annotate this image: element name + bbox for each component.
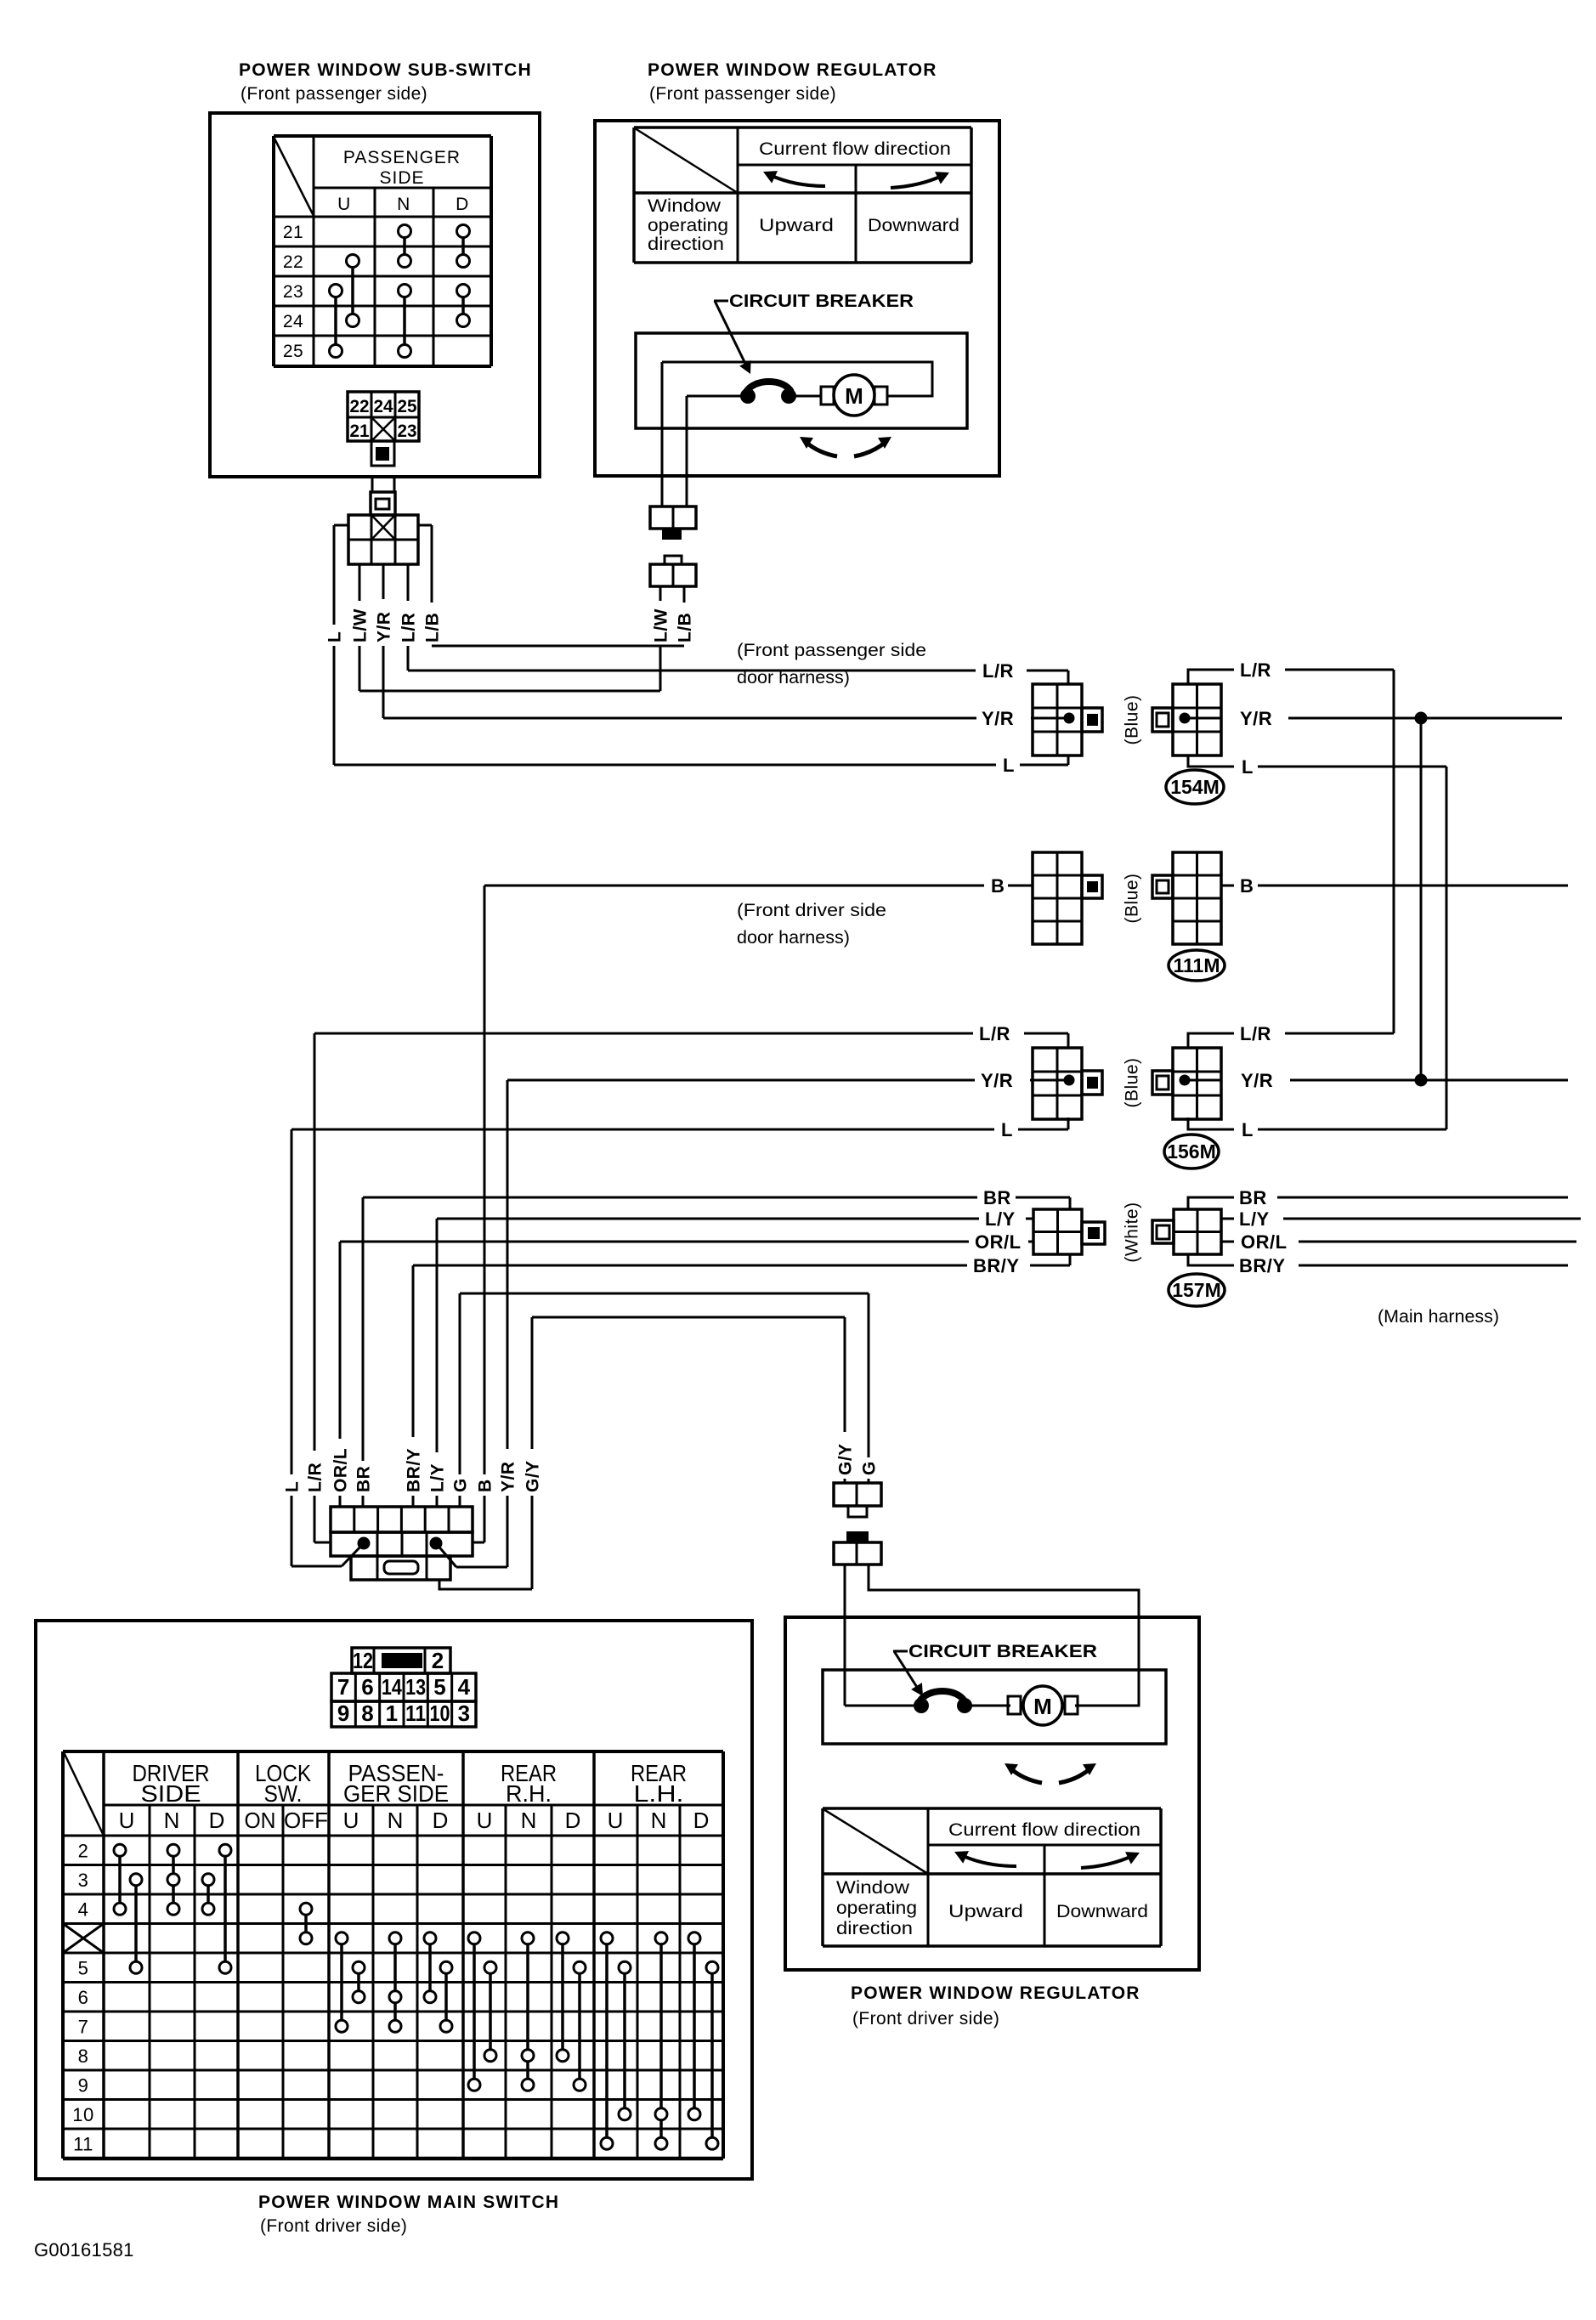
svg-text:R.H.: R.H. — [506, 1780, 552, 1807]
svg-text:21: 21 — [283, 223, 303, 242]
svg-text:5: 5 — [78, 1957, 89, 1978]
svg-text:Window: Window — [836, 1878, 910, 1898]
svg-text:5: 5 — [433, 1674, 445, 1700]
svg-text:CIRCUIT BREAKER: CIRCUIT BREAKER — [729, 291, 914, 311]
svg-text:22: 22 — [283, 252, 303, 272]
svg-text:OR/L: OR/L — [331, 1448, 351, 1492]
svg-text:L/R: L/R — [306, 1463, 325, 1492]
svg-text:N: N — [651, 1808, 667, 1833]
svg-text:24: 24 — [283, 312, 303, 331]
svg-text:1: 1 — [386, 1700, 398, 1726]
svg-text:BR/Y: BR/Y — [973, 1255, 1020, 1276]
svg-text:L/B: L/B — [676, 613, 695, 642]
svg-text:(White): (White) — [1123, 1202, 1142, 1262]
svg-text:L/R: L/R — [399, 613, 419, 642]
svg-text:Current flow direction: Current flow direction — [759, 139, 951, 159]
svg-text:U: U — [343, 1808, 359, 1833]
svg-text:3: 3 — [458, 1700, 470, 1726]
svg-text:B: B — [1240, 875, 1254, 897]
svg-text:BR: BR — [1239, 1187, 1267, 1208]
svg-text:L/R: L/R — [979, 1023, 1010, 1044]
svg-text:G00161581: G00161581 — [34, 2239, 134, 2261]
svg-text:BR/Y: BR/Y — [1239, 1255, 1286, 1276]
svg-text:(Blue): (Blue) — [1123, 694, 1142, 744]
svg-text:OFF: OFF — [284, 1808, 328, 1833]
svg-text:PASSENGER: PASSENGER — [343, 148, 461, 167]
svg-text:L: L — [325, 631, 345, 642]
svg-text:111M: 111M — [1174, 954, 1220, 976]
svg-text:BR: BR — [354, 1466, 374, 1492]
svg-text:POWER WINDOW SUB-SWITCH: POWER WINDOW SUB-SWITCH — [239, 60, 532, 80]
svg-text:25: 25 — [398, 397, 417, 416]
svg-text:operating: operating — [648, 216, 728, 235]
svg-text:U: U — [477, 1808, 493, 1833]
svg-text:Downward: Downward — [868, 216, 959, 235]
svg-text:4: 4 — [458, 1674, 471, 1700]
svg-text:SIDE: SIDE — [379, 168, 424, 188]
svg-text:7: 7 — [78, 2016, 89, 2037]
svg-text:L: L — [1001, 1119, 1013, 1140]
svg-text:157M: 157M — [1172, 1279, 1221, 1301]
svg-text:L/W: L/W — [652, 608, 671, 642]
svg-text:direction: direction — [648, 235, 724, 254]
svg-text:L: L — [1242, 756, 1254, 778]
svg-text:D: D — [565, 1808, 581, 1833]
svg-text:(Main harness): (Main harness) — [1378, 1307, 1499, 1327]
svg-text:L/Y: L/Y — [1239, 1208, 1270, 1230]
svg-text:(Front driver side: (Front driver side — [737, 901, 886, 920]
svg-text:Window: Window — [648, 196, 722, 216]
svg-text:L/B: L/B — [423, 613, 443, 642]
svg-text:N: N — [397, 195, 410, 214]
svg-text:N: N — [164, 1808, 180, 1833]
svg-text:(Front passenger side: (Front passenger side — [737, 641, 926, 660]
svg-text:Y/R: Y/R — [982, 708, 1014, 729]
svg-text:OR/L: OR/L — [975, 1231, 1022, 1253]
svg-text:6: 6 — [78, 1987, 89, 2008]
svg-text:G: G — [451, 1478, 471, 1492]
svg-text:U: U — [337, 195, 351, 214]
svg-text:21: 21 — [350, 422, 370, 441]
svg-text:(Front driver side): (Front driver side) — [852, 2009, 999, 2029]
svg-text:L/W: L/W — [351, 608, 371, 642]
svg-text:N: N — [388, 1808, 404, 1833]
svg-text:(Front driver side): (Front driver side) — [260, 2216, 407, 2236]
svg-text:Y/R: Y/R — [1241, 1070, 1273, 1091]
svg-text:B: B — [991, 875, 1005, 897]
svg-text:G/Y: G/Y — [836, 1443, 856, 1475]
svg-text:BR/Y: BR/Y — [405, 1448, 424, 1492]
svg-text:154M: 154M — [1170, 776, 1220, 798]
svg-text:23: 23 — [283, 282, 303, 302]
svg-text:L/R: L/R — [1240, 1023, 1271, 1044]
svg-text:9: 9 — [78, 2074, 89, 2096]
svg-text:25: 25 — [283, 342, 303, 361]
svg-text:4: 4 — [78, 1898, 89, 1920]
svg-text:L/Y: L/Y — [428, 1463, 448, 1492]
svg-text:L: L — [283, 1481, 303, 1492]
svg-text:Upward: Upward — [948, 1902, 1023, 1921]
svg-text:8: 8 — [78, 2046, 89, 2067]
svg-text:L: L — [1003, 755, 1015, 776]
svg-text:U: U — [119, 1808, 135, 1833]
svg-text:6: 6 — [361, 1674, 373, 1700]
svg-text:CIRCUIT BREAKER: CIRCUIT BREAKER — [908, 1642, 1097, 1661]
svg-text:3: 3 — [78, 1870, 89, 1891]
svg-text:operating: operating — [836, 1898, 917, 1918]
svg-text:POWER WINDOW REGULATOR: POWER WINDOW REGULATOR — [851, 1983, 1140, 2003]
svg-text:Downward: Downward — [1056, 1902, 1148, 1921]
svg-text:D: D — [433, 1808, 449, 1833]
svg-text:L/Y: L/Y — [985, 1208, 1016, 1230]
svg-text:9: 9 — [337, 1700, 349, 1726]
svg-text:L/R: L/R — [1240, 659, 1271, 681]
svg-text:U: U — [608, 1808, 624, 1833]
svg-text:GER SIDE: GER SIDE — [343, 1780, 449, 1807]
svg-text:D: D — [209, 1808, 225, 1833]
svg-text:L: L — [1242, 1119, 1254, 1140]
svg-text:SW.: SW. — [264, 1780, 303, 1807]
svg-text:22: 22 — [350, 397, 370, 416]
svg-text:Y/R: Y/R — [1240, 708, 1272, 729]
svg-text:G/Y: G/Y — [524, 1460, 543, 1492]
svg-text:OR/L: OR/L — [1241, 1231, 1288, 1253]
svg-text:SIDE: SIDE — [141, 1780, 201, 1807]
svg-text:L.H.: L.H. — [634, 1780, 684, 1807]
svg-text:direction: direction — [836, 1919, 913, 1938]
svg-text:11: 11 — [73, 2133, 93, 2154]
svg-text:23: 23 — [398, 422, 417, 441]
svg-text:M: M — [845, 383, 863, 409]
svg-text:8: 8 — [361, 1700, 373, 1726]
svg-text:(Blue): (Blue) — [1123, 873, 1142, 923]
svg-text:11: 11 — [405, 1700, 426, 1726]
svg-text:L/R: L/R — [982, 660, 1014, 682]
svg-text:7: 7 — [337, 1674, 349, 1700]
svg-text:Y/R: Y/R — [375, 611, 394, 642]
svg-text:(Front passenger side): (Front passenger side) — [241, 84, 427, 104]
svg-text:2: 2 — [78, 1840, 89, 1861]
svg-text:POWER WINDOW MAIN SWITCH: POWER WINDOW MAIN SWITCH — [258, 2193, 559, 2212]
svg-text:12: 12 — [353, 1648, 373, 1673]
svg-text:10: 10 — [72, 2104, 93, 2125]
svg-text:14: 14 — [382, 1674, 402, 1700]
svg-text:ON: ON — [245, 1808, 276, 1833]
svg-text:Y/R: Y/R — [499, 1461, 518, 1492]
svg-text:POWER WINDOW REGULATOR: POWER WINDOW REGULATOR — [648, 60, 937, 80]
svg-text:D: D — [693, 1808, 710, 1833]
svg-text:156M: 156M — [1167, 1140, 1216, 1163]
svg-text:B: B — [476, 1479, 495, 1492]
svg-text:BR: BR — [983, 1187, 1011, 1208]
svg-text:(Front passenger side): (Front passenger side) — [649, 84, 836, 104]
svg-text:door harness): door harness) — [737, 928, 850, 948]
svg-text:13: 13 — [405, 1674, 426, 1700]
svg-text:10: 10 — [429, 1700, 450, 1726]
svg-text:N: N — [521, 1808, 537, 1833]
svg-text:Current flow direction: Current flow direction — [948, 1820, 1140, 1840]
svg-text:Upward: Upward — [759, 216, 834, 235]
svg-text:D: D — [456, 195, 469, 214]
svg-text:M: M — [1033, 1694, 1052, 1719]
svg-text:24: 24 — [374, 397, 393, 416]
svg-text:(Blue): (Blue) — [1123, 1057, 1142, 1107]
svg-text:Y/R: Y/R — [981, 1070, 1013, 1091]
svg-text:G: G — [860, 1461, 880, 1475]
svg-text:2: 2 — [432, 1648, 444, 1673]
